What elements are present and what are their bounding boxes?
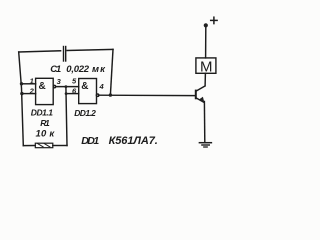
svg-text:DD1.1: DD1.1 bbox=[31, 108, 53, 118]
svg-text:M: M bbox=[200, 58, 213, 75]
svg-text:&: & bbox=[39, 81, 46, 92]
svg-text:10 к: 10 к bbox=[36, 129, 56, 140]
svg-text:DD1: DD1 bbox=[81, 135, 99, 147]
svg-text:0,022: 0,022 bbox=[66, 64, 90, 75]
svg-text:С1: С1 bbox=[50, 64, 61, 75]
svg-text:2: 2 bbox=[29, 86, 35, 95]
svg-text:R1: R1 bbox=[40, 118, 50, 128]
svg-text:К561ЛА7.: К561ЛА7. bbox=[109, 135, 158, 147]
svg-text:&: & bbox=[81, 81, 88, 92]
svg-text:DD1.2: DD1.2 bbox=[74, 108, 96, 118]
svg-text:1: 1 bbox=[30, 76, 34, 85]
svg-text:4: 4 bbox=[99, 82, 105, 91]
